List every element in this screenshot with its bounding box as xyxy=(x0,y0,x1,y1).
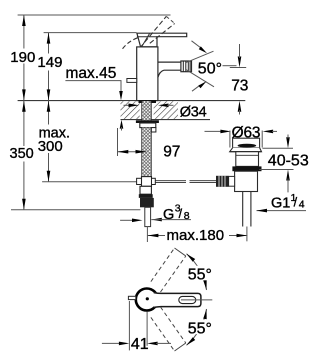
drain gasket xyxy=(232,166,261,171)
ext line top of lever (y=32.5) xyxy=(44,32,137,34)
55deg lower arc xyxy=(187,309,207,345)
phantom lever down cap xyxy=(175,343,186,351)
svg-text:55°: 55° xyxy=(188,321,212,338)
dim 40-53 bottom stem xyxy=(287,179,289,193)
dim 350 line lower segment xyxy=(23,162,25,210)
top view centerline xyxy=(181,299,212,301)
faucet lever bar xyxy=(137,33,187,47)
label 55deg lower xyxy=(187,320,213,338)
ext line hose nut bottom (y=209.7) xyxy=(11,209,140,211)
faucet body xyxy=(137,47,158,101)
dim 40-53 top ext line xyxy=(262,147,293,149)
55deg upper arc arrowhead top xyxy=(187,254,196,262)
spout bottom line xyxy=(164,69,181,71)
svg-text:G1: G1 xyxy=(271,195,290,211)
55deg upper arc xyxy=(187,254,207,290)
top view hub circle xyxy=(136,289,158,311)
dim 73 top arrow (above, pointing down) xyxy=(238,57,242,68)
svg-text:50°: 50° xyxy=(198,60,222,77)
dim O34 left arrow xyxy=(129,104,140,108)
drain upper body xyxy=(236,152,259,167)
shank wall right xyxy=(150,101,152,120)
drain tailpipe xyxy=(243,192,251,227)
dim 73 bottom stem xyxy=(239,110,241,115)
svg-text:300: 300 xyxy=(38,138,63,155)
dim max300 line upper segment xyxy=(48,101,50,125)
dim 149 arrow up xyxy=(47,33,51,44)
dim 41 right stem xyxy=(156,342,171,344)
drain upper body inner line xyxy=(236,154,259,156)
dim 97 ext line xyxy=(117,128,119,156)
max45 arrow up to deck bottom xyxy=(120,120,124,129)
max45 arrow down to deck top xyxy=(119,91,123,100)
dim 350 arrow up (below deck) xyxy=(22,101,26,112)
svg-text:190: 190 xyxy=(10,49,35,66)
dim max300 line lower segment xyxy=(48,153,50,182)
mounting nut xyxy=(140,123,156,128)
washer below deck xyxy=(136,120,159,123)
threaded rod texture xyxy=(142,128,150,177)
pop-up rod guide tab xyxy=(151,128,156,132)
svg-text:73: 73 xyxy=(231,77,248,94)
svg-text:Ø34: Ø34 xyxy=(180,105,207,121)
dim max180 left arrow xyxy=(148,234,159,238)
svg-text:4: 4 xyxy=(299,198,305,210)
50deg ray lower xyxy=(186,70,214,87)
hub top border xyxy=(137,36,157,38)
shank thread texture xyxy=(142,101,150,120)
phantom raised lever end cap xyxy=(166,16,174,23)
drain lower body xyxy=(235,171,258,191)
faucet base gasket xyxy=(139,100,157,103)
dim 41 right arrow xyxy=(147,342,158,346)
dim O63 right stem xyxy=(272,130,277,132)
G1 1/4 leader line xyxy=(257,210,307,212)
pop-up linkage coupling center xyxy=(142,177,152,187)
dim 73 top stem xyxy=(239,44,241,58)
threaded rod walls xyxy=(141,128,143,177)
svg-text:Ø63: Ø63 xyxy=(232,124,261,141)
O63 ext line left xyxy=(229,131,231,148)
phantom lever up edge A xyxy=(161,256,186,292)
svg-text:97: 97 xyxy=(163,144,180,161)
hose nut body dark xyxy=(140,198,154,207)
phantom lever up cap xyxy=(175,248,186,256)
top view lever inner slot xyxy=(179,296,196,303)
dim max300 arrow down xyxy=(47,171,51,182)
svg-text:G: G xyxy=(163,207,174,223)
svg-text:8: 8 xyxy=(184,210,190,222)
pop-up linkage coupling left wing xyxy=(137,178,142,184)
drain plug seal dark lens xyxy=(238,144,257,148)
dim 190 arrow up xyxy=(22,15,26,26)
dim 149 line lower segment xyxy=(48,71,50,101)
svg-text:max.180: max.180 xyxy=(167,227,225,244)
dim 97 left arrow xyxy=(118,150,129,154)
G3/8 nipple xyxy=(145,207,151,226)
spout fillet curve xyxy=(158,70,164,77)
phantom lever up edge B xyxy=(151,248,175,282)
dim 41 ext line right xyxy=(146,312,148,346)
dim 149 arrow down xyxy=(47,89,51,100)
phantom raised lever edge 2 xyxy=(150,24,175,44)
dim 350 arrow down xyxy=(22,199,26,210)
pop-up horizontal rod segment 1 xyxy=(155,181,186,183)
spout top line xyxy=(158,61,181,63)
dim 41 ext line left xyxy=(128,301,130,350)
dim O34 right stem xyxy=(167,104,174,106)
lever inner diagonal xyxy=(142,34,150,47)
dim 41 left arrow xyxy=(119,342,129,346)
G3/8 leader line xyxy=(151,219,191,221)
center ext line below nipple xyxy=(146,227,148,242)
max45 underline leader xyxy=(65,81,121,92)
dim O63 left arrow xyxy=(220,130,231,134)
label G1 1/4 xyxy=(271,192,305,212)
svg-text:350: 350 xyxy=(10,146,34,162)
dim max180 right arrow xyxy=(237,234,248,238)
50deg axis line right of text xyxy=(223,65,237,67)
svg-text:40-53: 40-53 xyxy=(268,153,309,170)
55deg lower arc arrowhead top xyxy=(203,309,207,319)
dim 40-53 bottom ext line xyxy=(259,169,293,171)
top view back nub xyxy=(128,296,135,299)
drain collar xyxy=(233,138,260,148)
dim 97 right arrow xyxy=(136,150,147,154)
drain center ext line xyxy=(246,227,248,242)
dim 41 left stem xyxy=(102,342,119,344)
drain side port xyxy=(229,176,235,186)
50deg lower arrowhead xyxy=(198,81,206,88)
O63 ext line right xyxy=(261,131,263,148)
dim O63 right arrow xyxy=(263,130,274,134)
55deg lower arc arrowhead bottom xyxy=(187,337,196,345)
dim 40-53 top stem xyxy=(287,135,289,139)
phantom lever down edge B xyxy=(151,317,175,351)
aerator knurl lines xyxy=(183,61,190,72)
dim 190 arrow down xyxy=(22,89,26,100)
ext line top of raised lever (y=15) xyxy=(18,14,171,16)
pop-up knob on body left xyxy=(127,79,137,83)
aerator body xyxy=(181,61,192,72)
svg-text:/: / xyxy=(179,207,183,221)
pop-up linkage coupling right wing xyxy=(152,178,156,184)
G3/8 left arrow xyxy=(132,219,143,223)
dim 149 line upper segment xyxy=(48,33,50,54)
deck hatch right of hole xyxy=(154,101,178,119)
max45 lower stem xyxy=(121,127,123,131)
50deg upper arrowhead xyxy=(199,46,207,53)
deck hatch left of hole xyxy=(121,101,140,119)
dim 350 line upper segment xyxy=(23,101,25,146)
phantom lever down edge A xyxy=(161,307,186,343)
top view lever arm xyxy=(154,293,201,308)
phantom raised lever edge 1 xyxy=(140,16,167,48)
svg-text:149: 149 xyxy=(37,54,62,71)
label 55deg upper xyxy=(187,266,213,284)
dim max300 arrow up (below deck) xyxy=(47,101,51,112)
hose nut dark band xyxy=(139,194,153,198)
G3/8 left arrow stem xyxy=(120,219,133,221)
G3/8 leader arrow xyxy=(151,218,162,222)
dim 73 top ext line xyxy=(230,67,246,69)
50deg upper leader stem xyxy=(192,41,201,48)
svg-text:/: / xyxy=(294,196,298,210)
50deg ray upper xyxy=(186,51,214,62)
dim max180 line right segment xyxy=(229,235,247,237)
ext line hose coupling level (y=181.7) xyxy=(42,181,136,183)
drain knurled knob xyxy=(216,176,229,187)
dim O34 right arrow xyxy=(158,104,169,108)
svg-text:55°: 55° xyxy=(188,267,212,284)
pop-up horizontal rod segment 2 xyxy=(190,181,217,183)
deck bottom line xyxy=(121,119,211,121)
drain bottom line xyxy=(235,191,258,193)
label G 3/8 xyxy=(163,203,190,223)
hose connector block xyxy=(140,186,151,194)
dim 40-53 top arrow xyxy=(286,137,290,148)
deck top line xyxy=(18,100,246,102)
drain flange trumpet xyxy=(230,148,262,152)
dim 40-53 bottom arrow xyxy=(286,170,290,181)
dim 190 line lower segment xyxy=(23,64,25,101)
svg-text:41: 41 xyxy=(131,336,149,353)
G1 1/4 leader arrow xyxy=(257,209,268,213)
dim max180 line left segment xyxy=(148,235,165,237)
dim 97 line xyxy=(118,151,147,153)
50deg lower leader stem xyxy=(192,85,200,91)
dim 73 bottom arrow (below deck line, pointing up) xyxy=(238,101,242,112)
dim O63 left stem xyxy=(205,130,223,132)
shank wall left xyxy=(141,101,143,120)
top view center dot xyxy=(146,297,149,300)
dim 190 line upper segment xyxy=(23,15,25,49)
55deg upper arc arrowhead bottom xyxy=(203,280,207,290)
phantom lever back arc xyxy=(123,38,138,49)
svg-text:max.45: max.45 xyxy=(66,65,117,82)
drain flange bottom line xyxy=(230,151,262,153)
dim O34 left stem xyxy=(124,104,131,106)
